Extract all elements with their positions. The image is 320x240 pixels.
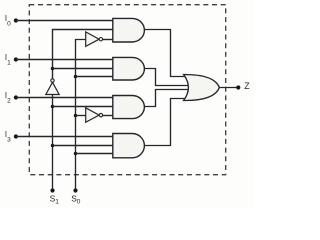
wire AND A4 output to OR gate input 4 xyxy=(144,99,187,146)
terminal dot I3 xyxy=(14,134,18,138)
terminal dot I2 xyxy=(14,95,18,99)
junction dot S1 branch to A4 xyxy=(51,144,55,148)
terminal dot S1 xyxy=(50,188,54,192)
terminal dot S0 xyxy=(73,188,77,192)
wire inverter N2 output to AND gate A3 pin 3 xyxy=(103,115,114,117)
wire S0 branch to AND gate A4 pin 3 xyxy=(76,153,114,155)
junction dot S1' branch to A2 xyxy=(51,67,55,71)
inverter N2 (S0 NOT, feeds A3) xyxy=(86,108,103,123)
wire S1 vertical (terminal up to inverter N3 input) xyxy=(52,95,54,191)
junction dot S0 branch to A2 xyxy=(74,75,78,79)
AND gate A4 xyxy=(113,134,145,158)
wire S1 branch to AND gate A3 pin 2 xyxy=(53,106,114,108)
inverter N3 (S1 NOT, vertical, output up) xyxy=(46,79,59,95)
OR gate U5 xyxy=(184,74,220,100)
AND gate A1 xyxy=(113,18,145,42)
junction dot S1 branch to A3 xyxy=(51,105,55,109)
wire I2 to AND gate A3 pin 1 xyxy=(16,97,114,99)
junction dot S0 branch to inverter N2 xyxy=(74,114,78,118)
terminal dot Z xyxy=(236,85,240,89)
wire inverter N1 output to AND gate A1 pin 3 xyxy=(103,39,114,41)
wire S1' branch to AND gate A2 pin 2 xyxy=(53,68,114,70)
AND gate A2 xyxy=(113,57,145,80)
AND gate A3 xyxy=(113,96,145,119)
wire S0 branch to inverter N2 input xyxy=(76,115,86,117)
wire I1 to AND gate A2 pin 1 xyxy=(16,59,114,61)
wire inverter N3 output up to AND gate A1 pin 2 xyxy=(53,30,114,79)
wire S0 branch to AND gate A2 pin 3 xyxy=(76,76,114,78)
wire AND A3 output to OR gate input 3 xyxy=(144,90,188,107)
inverter N1 (S0 NOT, feeds A1) xyxy=(86,32,103,47)
wire AND A1 output to OR gate input 1 xyxy=(144,30,187,77)
mux block boundary (dashed) xyxy=(29,5,225,175)
wire S0 vertical (terminal up, then right into inverter N1 input) xyxy=(76,40,86,191)
junction dot S0 branch to A4 xyxy=(74,152,78,156)
wire S1 branch to AND gate A4 pin 2 xyxy=(53,145,114,147)
svg-text:Z: Z xyxy=(244,81,250,91)
terminal dot I0 xyxy=(14,18,18,22)
wire I0 to AND gate A1 pin 1 xyxy=(16,20,114,22)
wire AND A2 output to OR gate input 2 xyxy=(144,69,188,86)
wire I3 to AND gate A4 pin 1 xyxy=(16,136,114,138)
wire OR output to Z terminal xyxy=(219,87,238,89)
terminal dot I1 xyxy=(14,57,18,61)
